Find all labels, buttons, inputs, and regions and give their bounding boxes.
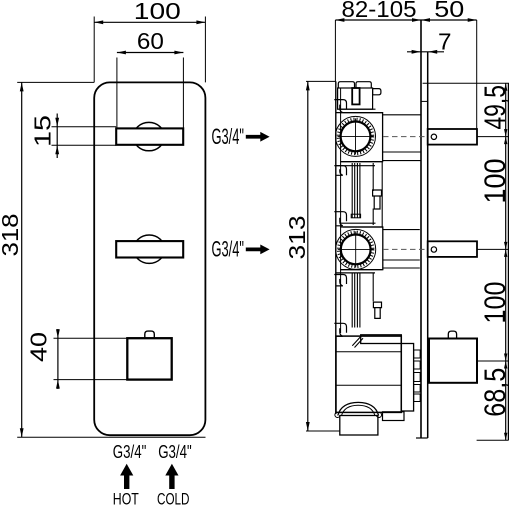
dim 313: [284, 81, 310, 431]
cartridge 2 inner circle: [341, 235, 371, 265]
svg-text:G3/4": G3/4": [212, 237, 245, 262]
svg-text:100: 100: [479, 159, 509, 204]
dim 40 extension lines: [54, 338, 128, 379]
cartridge 1 outer circle: [336, 116, 376, 156]
svg-text:7: 7: [438, 28, 452, 54]
connecting rod upper: [352, 163, 360, 218]
rod lower side screw: [373, 302, 381, 318]
outlet arrow 2: [246, 245, 270, 255]
thermostat block: [336, 336, 401, 412]
lower shelf cartridge 1: [336, 162, 383, 166]
diverter knob tab: [145, 331, 155, 338]
dim 313 extension top: [306, 80, 336, 82]
svg-text:318: 318: [0, 214, 23, 257]
svg-text:60: 60: [137, 28, 164, 54]
thermostat right protrusion: [401, 344, 413, 412]
right chain outer line: [507, 83, 509, 440]
diverter knob: [127, 338, 171, 379]
dim 60 extension lines: [117, 58, 183, 129]
cartridge 1 tube to wall: [383, 115, 421, 161]
svg-text:40: 40: [26, 332, 52, 362]
chain tick knob: [477, 360, 509, 362]
handle 2 knob ellipse: [134, 235, 165, 263]
handle 2 side pivot: [431, 247, 436, 252]
knob side tab: [448, 331, 456, 338]
mounting bracket 2 hook: [334, 212, 346, 226]
top mounting caps: [338, 82, 371, 88]
top shelf: [340, 109, 382, 112]
dim 318: [0, 82, 24, 437]
cartridge 2 outer circle: [336, 229, 376, 269]
dome feet: [335, 412, 382, 417]
svg-text:50: 50: [434, 0, 464, 22]
svg-text:100: 100: [479, 282, 509, 324]
centerline 1 dashed: [383, 136, 428, 138]
svg-text:HOT: HOT: [113, 489, 139, 508]
handle 2 side view: [428, 241, 477, 257]
cold inlet arrow: [165, 464, 178, 489]
valve body left edge: [335, 81, 337, 414]
cartridge 1 inner circle: [341, 121, 371, 151]
dim 318 extension line top: [17, 81, 94, 83]
hook below cartridge 2: [334, 275, 346, 286]
dim 100 extension lines: [94, 17, 205, 83]
svg-text:G3/4": G3/4": [158, 442, 192, 462]
chain tick handle 2: [477, 248, 509, 250]
bottom pipe: [340, 416, 378, 436]
centerline 2 dashed: [383, 248, 428, 250]
rod side screw: [373, 190, 382, 209]
lower shelf cartridge 2: [336, 270, 383, 273]
dim 40: [26, 329, 60, 389]
hook at thermostat: [334, 323, 346, 336]
wall line: [420, 20, 422, 438]
dim 15 extension lines: [52, 127, 117, 146]
hook below cartridge 1: [334, 166, 346, 176]
handle 1 side pivot: [431, 134, 436, 139]
bottom dome inner: [342, 405, 375, 415]
dim 82-105: [335, 0, 421, 22]
svg-text:G3/4": G3/4": [113, 442, 147, 462]
outlet arrow 1: [246, 132, 270, 142]
dim 318 extension line bottom: [17, 436, 205, 438]
svg-text:82-105: 82-105: [342, 0, 417, 22]
svg-text:COLD: COLD: [157, 489, 190, 508]
cartridge 1 block: [340, 113, 382, 162]
valve body inner left line: [340, 88, 342, 333]
thermostat top lip: [361, 335, 402, 344]
bracket 2 shelf: [340, 223, 383, 227]
right chain dim line: [505, 83, 507, 440]
handle 1 knob ellipse: [133, 122, 164, 150]
chain arrows: [504, 83, 507, 440]
lip left chamfer: [352, 336, 363, 348]
dim 313 extension bottom: [306, 430, 340, 432]
escutcheon bottom edge: [416, 437, 428, 439]
svg-text:68,5: 68,5: [479, 368, 509, 417]
bottom right bracket: [383, 412, 405, 421]
svg-text:100: 100: [134, 0, 181, 24]
cartridge 1 crosshair: [338, 118, 374, 154]
cartridge 2 knurl ring: [339, 232, 373, 266]
svg-text:313: 313: [284, 216, 310, 260]
dim 7: [407, 28, 452, 54]
handle 2 lever bar: [116, 241, 183, 257]
thermostat internal line: [336, 351, 401, 353]
dim 50: [421, 0, 477, 22]
handle 1 lever bar: [116, 128, 183, 144]
wall plate front view: [94, 82, 205, 435]
bottom dome outer: [338, 402, 379, 415]
protrusion screw details: [414, 350, 421, 402]
dim 60: [117, 28, 183, 55]
connecting rod lower: [352, 273, 360, 328]
chain tick top: [423, 82, 509, 84]
svg-text:G3/4": G3/4": [212, 124, 245, 149]
dim 82-105 extension line: [334, 20, 336, 81]
block joining edge upper: [373, 162, 382, 227]
rod foot: [351, 214, 360, 218]
top bracket block: [338, 88, 373, 109]
block joining edge lower: [372, 273, 374, 301]
escutcheon detail line: [421, 100, 428, 102]
handle 1 side view: [428, 129, 477, 145]
top left hook: [334, 100, 346, 113]
cartridge 2 crosshair: [338, 231, 374, 267]
svg-text:15: 15: [30, 115, 56, 147]
cartridge 2 block: [340, 227, 383, 270]
knob side view: [429, 339, 477, 383]
chain tick handle 1: [477, 136, 509, 138]
cartridge 2 tube to wall: [383, 230, 420, 268]
top right ear: [373, 89, 381, 95]
svg-text:49,5: 49,5: [479, 85, 509, 130]
chain tick bottom: [477, 439, 509, 441]
escutcheon side profile: [427, 52, 429, 438]
dim 100: [94, 0, 205, 24]
hot inlet arrow: [120, 464, 133, 489]
cartridge 1 knurl ring: [339, 119, 373, 153]
thermostat internal line lower: [336, 384, 401, 386]
dim 15: [30, 114, 60, 159]
dim 50 extension line: [476, 20, 478, 129]
top screw slot: [352, 88, 359, 104]
